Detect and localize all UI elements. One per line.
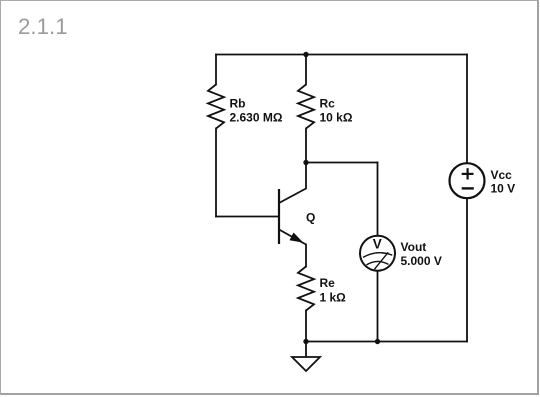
Vcc circle [450,163,485,198]
wire: Rc bottom lead to collector node [305,129,307,163]
voltmeter gauge lower arc [367,261,389,264]
svg-text:Rb: Rb [230,97,246,111]
svg-text:10 kΩ: 10 kΩ [320,111,353,125]
wire: Vcc top lead [466,55,468,164]
wire: voltmeter bottom lead [377,271,379,342]
junction dot: top rail / Rc [303,52,308,57]
svg-text:Vout: Vout [401,240,427,254]
wire: top rail from node B-left to Vcc branch [216,54,467,56]
transistor Q bar (base plate) [278,189,280,244]
svg-text:V: V [373,236,382,251]
junction dot: ground node [303,339,308,344]
svg-text:Rc: Rc [320,97,336,111]
voltmeter gauge upper arc [363,253,392,258]
svg-text:1 kΩ: 1 kΩ [320,290,347,304]
wire: voltmeter top lead [377,163,379,236]
Vcc minus sign [462,187,474,189]
svg-text:5.000 V: 5.000 V [401,254,442,268]
wire: Re bottom lead to ground node [305,311,307,342]
resistor Re [298,267,314,311]
transistor Q1 (NPN) [279,163,306,245]
Vcc plus sign [462,173,474,175]
ground symbol [292,357,320,371]
transistor Q emitter diagonal [279,230,306,245]
wire: Vcc bottom lead [466,198,468,341]
wire: Rb bottom lead down to base wire [215,129,217,217]
svg-text:2.1.1: 2.1.1 [18,14,68,39]
svg-text:Vcc: Vcc [491,168,513,182]
transistor Q emitter arrow [290,233,302,242]
resistor Rb [208,85,224,129]
wire: bottom rail [306,341,467,343]
junction dot: voltmeter bottom / bottom rail [375,339,380,344]
svg-text:Q: Q [306,211,315,225]
wire: Rc top lead [305,55,307,85]
wire: base wire to transistor Q [216,216,279,218]
wire: emitter to Re top lead [305,245,307,267]
wire: collector node to voltmeter branch (horizontal) [306,162,378,164]
voltmeter Vout [360,236,395,271]
svg-text:10 V: 10 V [491,182,516,196]
junction dot: collector node [303,160,308,165]
wire: ground stub [305,342,307,358]
voltmeter needle [375,252,389,269]
voltmeter circle [360,236,395,271]
transistor Q collector diagonal [279,163,306,204]
svg-text:Re: Re [320,276,336,290]
svg-text:2.630 MΩ: 2.630 MΩ [230,111,283,125]
wire: Rb top lead [215,55,217,85]
resistor Rc [298,85,314,129]
voltage source Vcc [450,163,485,198]
